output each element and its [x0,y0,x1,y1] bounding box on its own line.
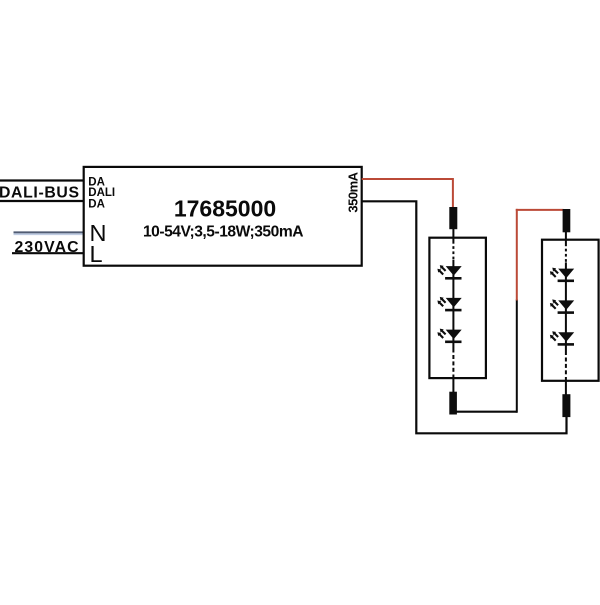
connector module 1 top [449,207,457,229]
LED module 1 box [429,238,486,378]
LED driver U1 box [84,167,362,266]
LED D4 [550,268,574,283]
svg-text:17685000: 17685000 [174,196,276,222]
wire module 1 lead bottom (dashed) [452,343,454,353]
wire 230VAC line to L [12,252,84,254]
wire module 1 minus to node (black) [456,411,517,413]
wire module 1 LED string [452,260,454,342]
wire output plus (red) driver to module 1 connector [362,179,453,208]
wire module 2 lead top (dashed) [565,232,567,247]
wire DALI bus DA bottom [0,200,84,202]
wire module 2 lead bottom (dashed) [565,346,567,356]
wire module 2 plus lead (red) [516,209,518,301]
LED module 2 box [542,240,599,381]
wire 230VAC neutral (blue) to N [14,231,84,233]
svg-text:DALI-BUS: DALI-BUS [0,184,80,201]
connector module 2 bottom [562,394,570,417]
LED D2 [437,297,461,312]
svg-text:10-54V;3,5-18W;350mA: 10-54V;3,5-18W;350mA [143,224,303,241]
wire module 2 LED string [565,262,567,344]
connector module 1 bottom [449,392,457,415]
wire DALI bus DA top [0,179,84,181]
svg-text:L: L [90,241,103,267]
wire module 1 lead top (dashed) [452,229,454,244]
LED D6 [550,331,574,346]
connector module 2 top [563,209,571,232]
LED D3 [437,329,461,344]
svg-text:350mA: 350mA [346,171,361,212]
LED D5 [550,299,574,314]
svg-text:DA: DA [88,198,105,210]
wire output minus (black) driver return to module 2 connector [362,201,567,433]
LED D1 [437,265,461,280]
